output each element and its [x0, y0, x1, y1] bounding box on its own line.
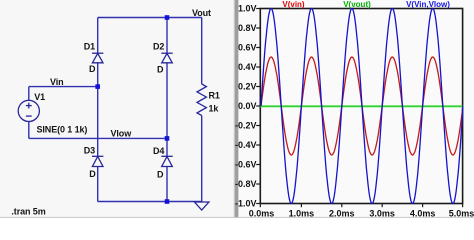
y axis labels — [235, 4, 257, 209]
pane separator — [234, 0, 239, 218]
svg-text:.tran 5m: .tran 5m — [11, 207, 45, 217]
svg-text:1k: 1k — [209, 104, 220, 114]
svg-text:3.0ms: 3.0ms — [369, 209, 395, 219]
svg-text:D: D — [89, 169, 96, 179]
voltage source V1 — [18, 100, 39, 121]
plot frame — [260, 9, 462, 204]
trace V(Vin,Vlow) blue — [261, 9, 463, 204]
svg-text:V1: V1 — [34, 92, 45, 102]
x axis ticks — [260, 204, 462, 208]
wire bottom — [98, 201, 202, 203]
svg-text:Vin: Vin — [50, 77, 64, 87]
wire Vin horizontal — [29, 86, 98, 88]
svg-text:-0.6V: -0.6V — [235, 160, 257, 170]
svg-text:0.0ms: 0.0ms — [249, 209, 275, 219]
svg-text:D: D — [157, 170, 164, 180]
bottom edge line — [0, 217, 474, 218]
svg-text:D1: D1 — [84, 42, 95, 52]
diode D3 — [92, 156, 103, 166]
wire D2-D4 mid — [166, 63, 168, 157]
svg-text:2.0ms: 2.0ms — [329, 209, 355, 219]
wire D4 leg bottom — [166, 167, 168, 202]
wire Vlow horizontal — [29, 137, 167, 139]
svg-text:D2: D2 — [153, 42, 164, 52]
wire right rail lower — [201, 116, 203, 202]
svg-text:-0.4V: -0.4V — [235, 140, 257, 150]
waveform pane background — [237, 0, 474, 218]
wire left rail top — [97, 18, 99, 54]
junction Vin / left rail — [95, 84, 100, 89]
schematic pane background — [0, 0, 237, 218]
svg-text:V(Vin,Vlow): V(Vin,Vlow) — [406, 0, 450, 9]
svg-text:V(vin): V(vin) — [282, 0, 305, 9]
trace V(vout) green — [260, 105, 462, 107]
diode D4 — [161, 156, 172, 166]
wire D2 leg top — [166, 18, 168, 54]
svg-text:D4: D4 — [153, 146, 164, 156]
wire V1 top stub — [28, 87, 30, 101]
svg-text:0.0V: 0.0V — [238, 101, 257, 111]
svg-text:1.0ms: 1.0ms — [289, 209, 315, 219]
svg-text:D3: D3 — [84, 146, 95, 156]
svg-text:0.6V: 0.6V — [238, 43, 257, 53]
diode D1 — [92, 53, 103, 63]
junction Vlow / right leg — [165, 136, 170, 141]
svg-text:D: D — [157, 65, 164, 75]
junction bottom / D4 leg — [165, 199, 170, 204]
resistor R1 — [197, 84, 206, 116]
wire Vout top — [98, 17, 202, 19]
svg-text:V(vout): V(vout) — [343, 0, 371, 9]
trace V(vin) red — [261, 57, 463, 155]
svg-text:-0.2V: -0.2V — [235, 121, 257, 131]
svg-text:Vout: Vout — [192, 8, 211, 18]
svg-text:4.0ms: 4.0ms — [410, 209, 436, 219]
svg-text:D: D — [89, 64, 96, 74]
svg-text:0.4V: 0.4V — [238, 62, 257, 72]
svg-text:-0.8V: -0.8V — [235, 179, 257, 189]
svg-text:1.0V: 1.0V — [238, 4, 257, 14]
svg-text:Vlow: Vlow — [111, 129, 133, 139]
y axis ticks — [256, 9, 260, 204]
svg-text:0.8V: 0.8V — [238, 23, 257, 33]
wire right rail upper — [201, 18, 203, 85]
svg-text:R1: R1 — [209, 90, 220, 100]
x axis labels — [249, 209, 474, 219]
wire left rail bottom — [97, 167, 99, 202]
wire left rail mid — [97, 63, 99, 157]
junction Vout / D2 leg — [165, 15, 170, 20]
ground — [195, 202, 209, 210]
diode D2 — [161, 53, 172, 63]
svg-text:-1.0V: -1.0V — [235, 199, 257, 209]
svg-text:0.2V: 0.2V — [238, 82, 257, 92]
svg-text:SINE(0 1 1k): SINE(0 1 1k) — [37, 124, 88, 134]
svg-text:5.0ms: 5.0ms — [449, 209, 474, 219]
wire V1 bottom stub — [28, 122, 30, 139]
